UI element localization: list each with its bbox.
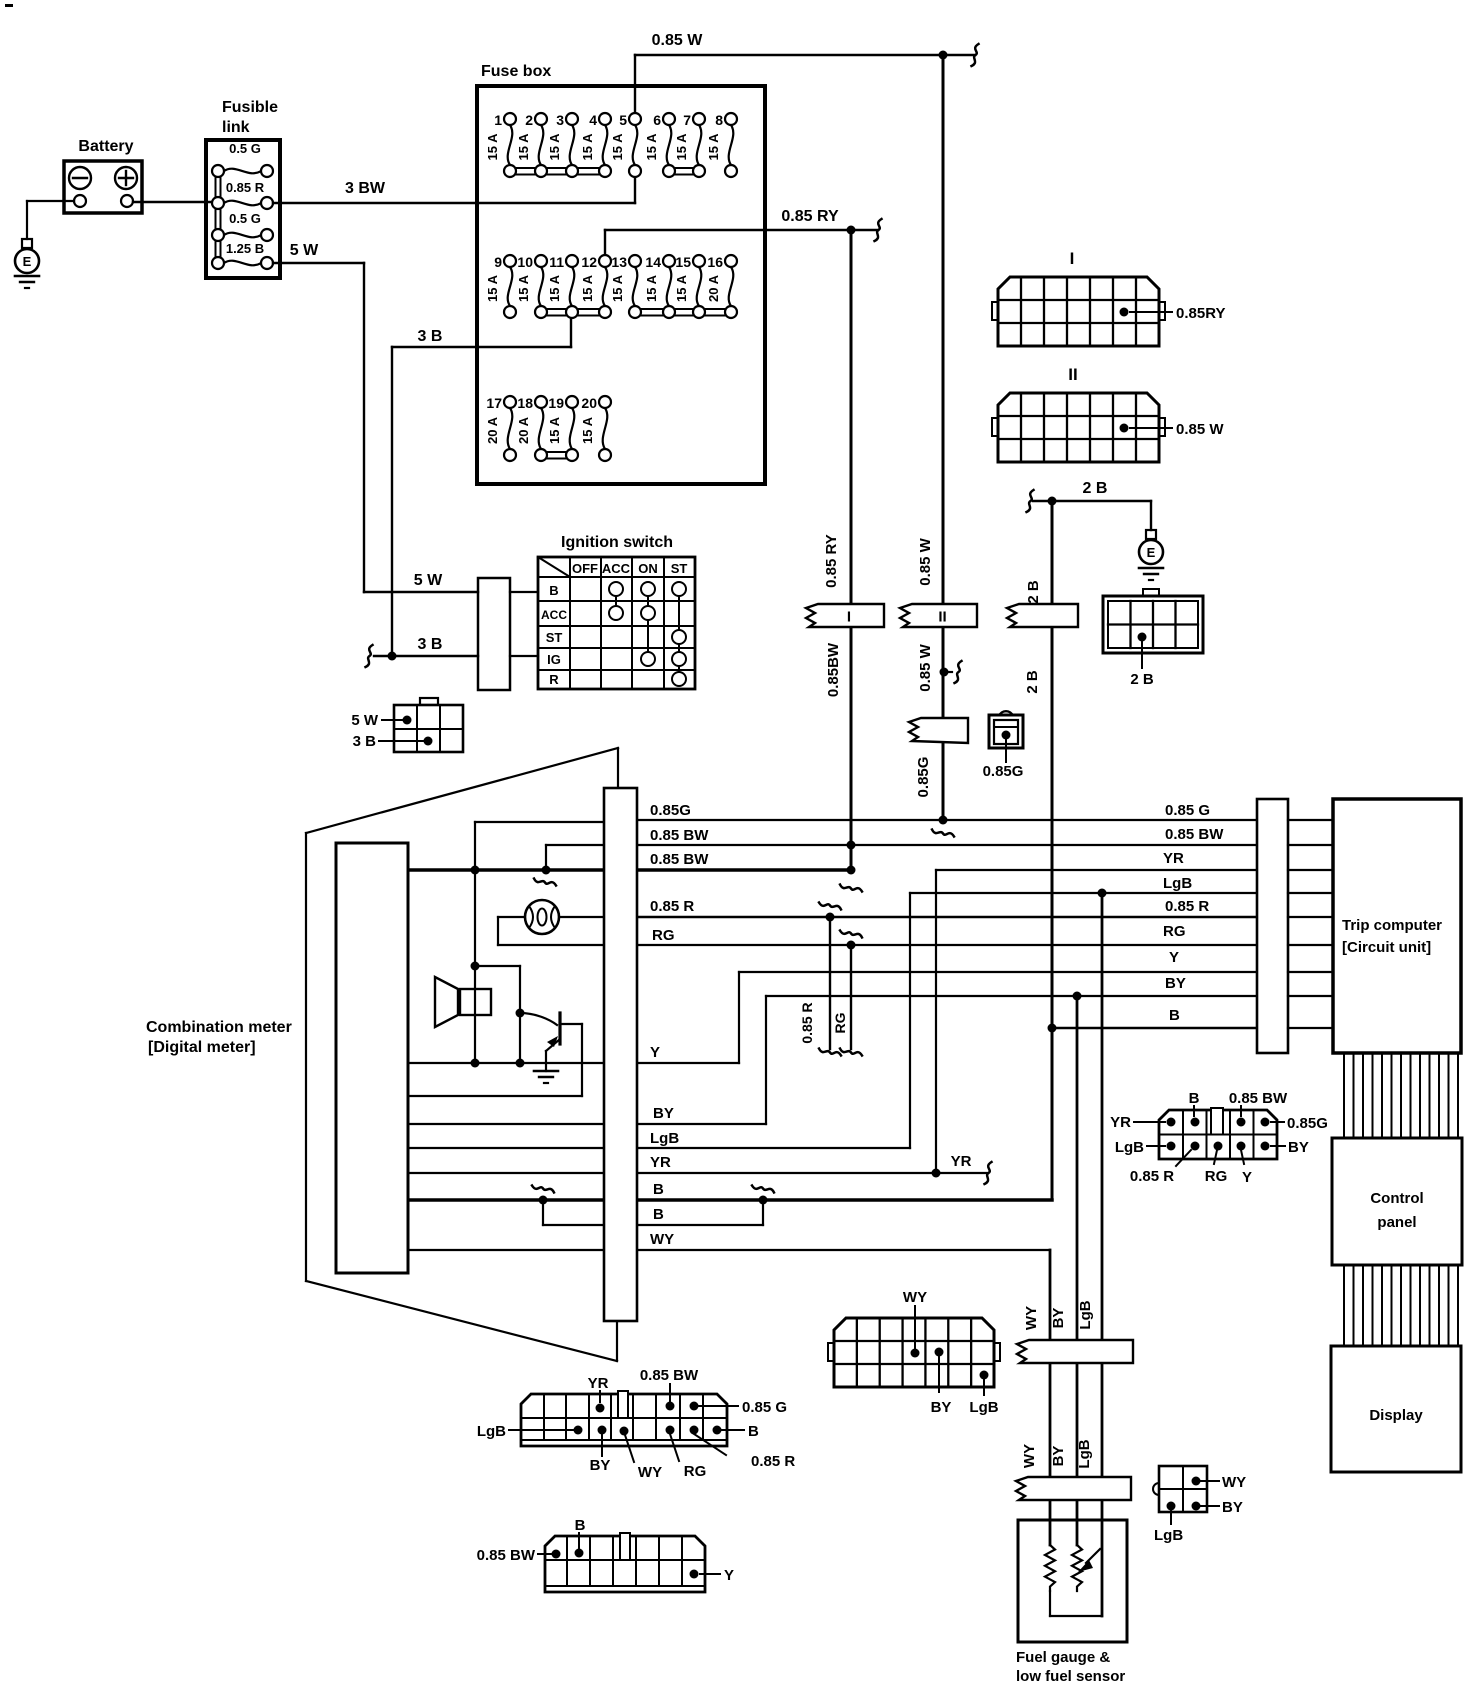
svg-text:0.85G: 0.85G: [650, 802, 691, 819]
ignition switch table: [538, 557, 695, 689]
svg-text:B: B: [549, 583, 558, 598]
break above B node left: [532, 1186, 554, 1193]
svg-text:RG: RG: [832, 1012, 848, 1033]
node 2 B junction: [1048, 497, 1057, 506]
ribbon control panel to display: [1344, 1265, 1458, 1346]
node RG branch: [847, 941, 856, 950]
svg-text:Y: Y: [1242, 1169, 1252, 1186]
resistor (low fuel sensor): [1072, 1545, 1082, 1591]
svg-text:0.85 R: 0.85 R: [1165, 898, 1209, 915]
wire 3 BW fusible link to fuse box: [273, 202, 477, 204]
trip computer (circuit unit): [1333, 799, 1461, 1053]
connector (5W / 3B): [394, 698, 463, 752]
svg-text:ACC: ACC: [541, 608, 567, 622]
wire 3 B from fuse bus: [570, 312, 572, 347]
svg-text:Display: Display: [1369, 1407, 1423, 1424]
svg-text:ACC: ACC: [602, 561, 631, 576]
svg-text:WY: WY: [650, 1231, 674, 1248]
svg-text:IG: IG: [547, 652, 561, 667]
node YR: [932, 1169, 941, 1178]
svg-text:B: B: [653, 1206, 664, 1223]
svg-text:7: 7: [683, 112, 691, 128]
fuse bus row2 fuses 10-12: [541, 308, 605, 310]
svg-text:2 B: 2 B: [1083, 480, 1108, 497]
svg-text:RG: RG: [684, 1463, 707, 1480]
node 0.85 BW row: [847, 841, 856, 850]
svg-text:0.85 BW: 0.85 BW: [640, 1367, 699, 1384]
page speck: [5, 4, 13, 7]
fuse 8 (15 A): [706, 112, 733, 165]
svg-text:15: 15: [675, 254, 691, 270]
svg-text:0.5 G: 0.5 G: [229, 141, 261, 156]
svg-text:OFF: OFF: [572, 561, 598, 576]
svg-text:B: B: [653, 1181, 664, 1198]
node BY: [1073, 992, 1082, 1001]
wire 0.85 W top run: [635, 54, 943, 56]
wire battery negative to ground: [27, 200, 74, 202]
wire 0.85 RY / 0.85 BW vertical: [850, 230, 853, 870]
wire YR meter to riser: [638, 1172, 936, 1174]
wire RG branch down: [840, 931, 862, 938]
speaker SP: [435, 977, 491, 1027]
svg-text:0.85 R: 0.85 R: [1130, 1168, 1174, 1185]
svg-text:20 A: 20 A: [516, 416, 531, 444]
svg-text:15 A: 15 A: [580, 133, 595, 161]
svg-text:0.85 BW: 0.85 BW: [1165, 826, 1224, 843]
svg-text:0.85 BW: 0.85 BW: [477, 1547, 536, 1564]
svg-text:3: 3: [556, 112, 564, 128]
wire 0.85 G row: [638, 819, 1257, 821]
svg-text:LgB: LgB: [650, 1130, 679, 1147]
svg-text:WY: WY: [638, 1464, 662, 1481]
svg-text:RG: RG: [1163, 923, 1186, 940]
wire 0.85 BW row: [638, 844, 1257, 846]
svg-text:0.85 BW: 0.85 BW: [650, 851, 709, 868]
fuse 16 (20 A): [706, 254, 733, 306]
svg-text:0.85 G: 0.85 G: [1165, 802, 1210, 819]
svg-text:8: 8: [715, 112, 723, 128]
fuse 9 (15 A): [485, 254, 512, 306]
svg-text:1.25 B: 1.25 B: [226, 241, 264, 256]
wire 5 W from fusible link: [273, 262, 364, 264]
svg-text:15 A: 15 A: [516, 133, 531, 161]
connector (single pin, 0.85 G): [989, 711, 1023, 748]
svg-text:panel: panel: [1377, 1214, 1416, 1231]
wire 5 W to ignition switch: [364, 591, 478, 593]
svg-text:3 B: 3 B: [418, 328, 443, 345]
svg-text:Y: Y: [724, 1567, 734, 1584]
svg-text:LgB: LgB: [1115, 1139, 1144, 1156]
node B / 2B: [1048, 1024, 1057, 1033]
svg-text:LgB: LgB: [1163, 875, 1192, 892]
svg-text:20 A: 20 A: [485, 416, 500, 444]
pin BY: [1192, 1502, 1201, 1511]
svg-text:low fuel sensor: low fuel sensor: [1016, 1668, 1125, 1685]
wire WY vertical: [1049, 1250, 1052, 1545]
fuse 7 (15 A): [674, 112, 701, 165]
svg-text:6: 6: [653, 112, 661, 128]
svg-text:5 W: 5 W: [414, 572, 443, 589]
wiper arrow (fuel sender): [1086, 1549, 1100, 1563]
fuse 6 (15 A): [644, 112, 671, 165]
svg-text:15 A: 15 A: [706, 133, 721, 161]
wire 3 B to ignition switch: [374, 655, 478, 657]
svg-text:0.85 W: 0.85 W: [1176, 421, 1224, 438]
svg-text:LgB: LgB: [477, 1423, 506, 1440]
wire 0.85 G meter: [475, 821, 604, 823]
svg-text:3 B: 3 B: [353, 733, 377, 750]
svg-text:15 A: 15 A: [547, 133, 562, 161]
svg-text:1: 1: [494, 112, 502, 128]
svg-text:BY: BY: [1288, 1139, 1309, 1156]
fuse 19 (15 A): [547, 395, 574, 449]
svg-text:WY: WY: [903, 1289, 927, 1306]
svg-text:14: 14: [645, 254, 661, 270]
svg-text:ON: ON: [638, 561, 658, 576]
wire 2 B vertical: [1051, 501, 1054, 1200]
wire Y row right: [638, 1062, 739, 1064]
inline connector II on 0.85W wire: [900, 604, 977, 627]
break below 0.85BW junction: [840, 885, 862, 892]
trip computer connector: [1257, 799, 1288, 1053]
fuse 14 (15 A): [644, 254, 671, 306]
battery: [64, 161, 142, 213]
meter connector block: [604, 788, 637, 1321]
svg-text:Ignition switch: Ignition switch: [561, 534, 673, 551]
svg-text:15 A: 15 A: [516, 274, 531, 302]
fuse bus row1 fuses 1-4: [510, 167, 605, 169]
fuse bus row1 fuses 6-7: [669, 167, 699, 169]
ground E (2B): [1139, 530, 1163, 580]
svg-text:0.85 RY: 0.85 RY: [823, 534, 840, 588]
svg-text:LgB: LgB: [1154, 1527, 1183, 1544]
node 0.85 R branch: [826, 913, 835, 922]
svg-text:0.85G: 0.85G: [915, 757, 932, 798]
fuse 11 (15 A): [547, 254, 574, 306]
svg-text:19: 19: [548, 395, 564, 411]
pin 0.85 W in connector II: [1120, 424, 1129, 433]
connector II: [992, 393, 1165, 462]
node 0.85 RY junction: [847, 226, 856, 235]
node 0.85 W junction: [939, 51, 948, 60]
wire battery positive to fusible link: [133, 201, 212, 203]
display: [1331, 1346, 1461, 1472]
wire B heavy row right: [638, 1198, 1052, 1202]
svg-text:4: 4: [589, 112, 597, 128]
wire B meter jumper left: [543, 1224, 604, 1226]
svg-text:15 A: 15 A: [610, 133, 625, 161]
transistor Q1: [520, 1013, 582, 1096]
svg-text:LgB: LgB: [1077, 1300, 1094, 1329]
fuel gauge box: [1018, 1520, 1127, 1642]
node 0.85 W to 0.85 G row: [939, 816, 948, 825]
pin WY: [911, 1349, 920, 1358]
svg-text:YR: YR: [951, 1153, 972, 1170]
svg-text:15 A: 15 A: [644, 133, 659, 161]
wire Y meter: [409, 1062, 604, 1064]
svg-text:0.85RY: 0.85RY: [1176, 305, 1225, 322]
svg-text:0.85BW: 0.85BW: [825, 642, 842, 697]
inline connector on 0.85W/0.85G wire: [909, 718, 968, 743]
svg-text:13: 13: [611, 254, 627, 270]
svg-text:I: I: [847, 609, 851, 626]
svg-text:3 BW: 3 BW: [345, 180, 386, 197]
svg-text:15 A: 15 A: [610, 274, 625, 302]
fuse 3 (15 A): [547, 112, 574, 165]
wire transistor collector to meter: [409, 1095, 582, 1097]
svg-text:LgB: LgB: [969, 1399, 998, 1416]
fuse bus row2 fuses 13-16: [635, 308, 731, 310]
wire BY vertical: [1076, 996, 1079, 1545]
wire 0.85 BW meter heavy: [409, 868, 604, 872]
wire LgB vertical: [1101, 893, 1104, 1616]
svg-text:Trip computer: Trip computer: [1342, 917, 1442, 934]
pin 0.85 RY in connector I: [1120, 308, 1129, 317]
fuse 2 (15 A): [516, 112, 543, 165]
break below 0.85BW node: [534, 879, 556, 886]
svg-text:0.5 G: 0.5 G: [229, 211, 261, 226]
wire YR meter: [409, 1172, 604, 1174]
wire 0.85 RY top run: [605, 229, 851, 231]
connector (4-pin WY/BY/LgB): [1153, 1466, 1207, 1512]
fusible link internal bus: [215, 171, 217, 263]
node 0.85 BW heavy row: [847, 866, 856, 875]
pin BY: [935, 1348, 944, 1357]
inline connector on 2B wire: [1007, 604, 1078, 627]
connector (WY/BY/LgB): [828, 1318, 1000, 1387]
svg-text:ST: ST: [671, 561, 688, 576]
svg-text:15 A: 15 A: [580, 274, 595, 302]
wire LgB meter: [409, 1147, 604, 1149]
svg-text:15 A: 15 A: [644, 274, 659, 302]
ribbon trip computer to control panel: [1344, 1053, 1458, 1138]
wire RG meter: [498, 944, 604, 946]
svg-text:10: 10: [517, 254, 533, 270]
svg-text:Fuel gauge &: Fuel gauge &: [1016, 1649, 1110, 1666]
ignition switch contacts: [615, 589, 617, 613]
pin LgB: [980, 1371, 989, 1380]
fuse 12 (15 A): [580, 254, 607, 306]
inline connector I on 0.85RY/BW wire: [806, 604, 884, 627]
svg-text:II: II: [1068, 365, 1077, 384]
fuse 4 (15 A): [580, 112, 607, 165]
wire WY meter: [409, 1249, 604, 1251]
fusible link box: [206, 140, 280, 278]
svg-text:B: B: [1169, 1007, 1180, 1024]
lamp L1: [498, 900, 604, 945]
svg-text:WY: WY: [1023, 1306, 1040, 1330]
pin LgB: [1167, 1502, 1176, 1511]
svg-text:0.85 R: 0.85 R: [799, 1002, 815, 1043]
svg-text:15 A: 15 A: [547, 274, 562, 302]
svg-text:BY: BY: [653, 1105, 674, 1122]
pin 5 W: [403, 716, 412, 725]
svg-text:15 A: 15 A: [580, 416, 595, 444]
wire 3 BW inside fuse box to fuse 5: [477, 202, 635, 204]
fuse 20 (15 A): [580, 395, 607, 449]
fuse 17 (20 A): [485, 395, 512, 449]
svg-text:2 B: 2 B: [1025, 580, 1042, 604]
wire 0.85 W vertical: [942, 55, 945, 820]
svg-text:20 A: 20 A: [706, 274, 721, 302]
svg-text:RG: RG: [652, 927, 675, 944]
wire LgB meter to riser: [638, 1147, 910, 1149]
svg-text:[Circuit unit]: [Circuit unit]: [1342, 939, 1431, 956]
wire LgB row right: [910, 892, 1257, 894]
svg-text:15 A: 15 A: [485, 274, 500, 302]
wire 0.85 BW heavy row: [638, 868, 851, 872]
svg-text:link: link: [222, 119, 250, 136]
wire YR row right: [936, 869, 1257, 871]
svg-text:0.85 RY: 0.85 RY: [781, 208, 839, 225]
svg-text:Fusible: Fusible: [222, 99, 278, 116]
svg-text:0.85 W: 0.85 W: [917, 643, 934, 691]
svg-text:Battery: Battery: [78, 138, 133, 155]
connector (10-pin trip computer): [1159, 1108, 1277, 1159]
svg-text:RG: RG: [1205, 1168, 1228, 1185]
svg-text:BY: BY: [1050, 1308, 1067, 1329]
svg-text:YR: YR: [1110, 1114, 1131, 1131]
svg-text:BY: BY: [1050, 1446, 1067, 1467]
wire fuel gauge return loop: [1049, 1591, 1051, 1616]
svg-text:YR: YR: [588, 1375, 609, 1392]
wire B row to trip connector: [1052, 1027, 1257, 1029]
fuse box: [477, 86, 765, 484]
svg-text:0.85 W: 0.85 W: [917, 537, 934, 585]
connector (meter harness A): [521, 1391, 727, 1446]
resistor (fuel gauge): [1045, 1545, 1055, 1591]
connector (meter harness B): [545, 1533, 705, 1592]
svg-text:B: B: [1189, 1090, 1200, 1107]
svg-text:[Digital meter]: [Digital meter]: [148, 1039, 256, 1056]
fuse 5 (15 A): [610, 112, 637, 165]
fuse 1 (15 A): [485, 112, 512, 165]
svg-text:BY: BY: [1165, 975, 1186, 992]
wire WY row: [638, 1249, 1050, 1251]
svg-text:15 A: 15 A: [674, 133, 689, 161]
pin 0.85 G: [1002, 731, 1011, 740]
svg-text:0.85 R: 0.85 R: [226, 180, 265, 195]
break 2 B left end: [1027, 490, 1034, 512]
svg-text:0.85 R: 0.85 R: [751, 1453, 795, 1470]
svg-text:17: 17: [486, 395, 502, 411]
node 3 B junction: [388, 652, 397, 661]
svg-text:0.85 BW: 0.85 BW: [1229, 1090, 1288, 1107]
ground (transistor emitter): [534, 1071, 558, 1083]
svg-text:2 B: 2 B: [1130, 671, 1154, 688]
svg-text:BY: BY: [1222, 1499, 1243, 1516]
svg-text:R: R: [549, 672, 559, 687]
svg-text:0.85G: 0.85G: [1287, 1115, 1328, 1132]
wire 0.85 BW meter: [546, 844, 604, 846]
svg-text:20: 20: [581, 395, 597, 411]
svg-text:Y: Y: [1169, 949, 1179, 966]
break 0.85 RY end: [875, 219, 882, 241]
break 3 B left end: [366, 645, 373, 667]
svg-text:3 B: 3 B: [418, 636, 443, 653]
svg-text:Y: Y: [650, 1044, 660, 1061]
pin 3 B: [424, 737, 433, 746]
wire BY meter: [409, 1123, 604, 1125]
wire to transistor base: [475, 965, 520, 967]
svg-text:YR: YR: [650, 1154, 671, 1171]
svg-text:BY: BY: [590, 1457, 611, 1474]
svg-text:LgB: LgB: [1076, 1439, 1093, 1468]
svg-text:2: 2: [525, 112, 533, 128]
wire 0.85 RY from fuse 12: [604, 230, 606, 261]
svg-text:WY: WY: [1222, 1474, 1246, 1491]
node 0.85 W junction with break: [944, 671, 952, 673]
svg-text:16: 16: [707, 254, 723, 270]
svg-text:Fuse box: Fuse box: [481, 63, 551, 80]
svg-text:II: II: [938, 609, 946, 626]
svg-text:11: 11: [549, 254, 564, 270]
ground E (battery): [15, 239, 39, 288]
svg-text:18: 18: [517, 395, 533, 411]
combination meter outline: [306, 748, 618, 1361]
wire 0.85 W from fuse 5: [634, 55, 636, 119]
svg-text:0.85G: 0.85G: [983, 763, 1024, 780]
inline connector (fuel harness upper): [1017, 1340, 1133, 1363]
control panel: [1332, 1138, 1462, 1265]
svg-text:B: B: [748, 1423, 759, 1440]
svg-text:Control: Control: [1370, 1190, 1423, 1207]
connector (8-pin, 2B): [1103, 589, 1203, 653]
svg-text:I: I: [1070, 249, 1075, 268]
svg-text:0.85 BW: 0.85 BW: [650, 827, 709, 844]
svg-text:WY: WY: [1021, 1444, 1038, 1468]
meter internal block: [336, 843, 408, 1273]
fuse 10 (15 A): [516, 254, 543, 306]
svg-text:15 A: 15 A: [674, 274, 689, 302]
wire RG row: [638, 944, 1257, 946]
wire B jumper right: [638, 1224, 763, 1226]
fuse bus row3 fuses 18-19: [541, 451, 572, 453]
svg-text:15 A: 15 A: [485, 133, 500, 161]
fuse 15 (15 A): [674, 254, 701, 306]
wire 0.85 R row: [638, 916, 1257, 918]
wire BY row right: [638, 1123, 766, 1125]
svg-text:YR: YR: [1163, 850, 1184, 867]
wire 0.85 R branch down: [819, 903, 841, 910]
node B jumper right: [759, 1196, 768, 1205]
svg-text:5: 5: [619, 112, 627, 128]
inline connector (fuel harness lower): [1016, 1477, 1131, 1500]
node LgB: [1098, 889, 1107, 898]
svg-text:BY: BY: [931, 1399, 952, 1416]
fuse 13 (15 A): [610, 254, 637, 306]
svg-text:5 W: 5 W: [351, 712, 379, 729]
svg-text:B: B: [575, 1517, 586, 1534]
connector I: [992, 277, 1165, 346]
svg-text:0.85 G: 0.85 G: [742, 1399, 787, 1416]
svg-text:0.85 W: 0.85 W: [652, 32, 704, 49]
pin 2 B in 8-pin connector: [1138, 633, 1147, 642]
svg-text:ST: ST: [546, 630, 563, 645]
break 0.85 W end: [972, 44, 979, 66]
svg-text:12: 12: [581, 254, 597, 270]
svg-text:Combination meter: Combination meter: [146, 1019, 292, 1036]
fuse 18 (20 A): [516, 395, 543, 449]
ignition switch connector: [478, 578, 510, 690]
svg-text:15 A: 15 A: [547, 416, 562, 444]
svg-text:2 B: 2 B: [1024, 670, 1041, 694]
svg-text:E: E: [1147, 545, 1156, 560]
pin WY: [1192, 1477, 1201, 1486]
wire B meter heavy: [409, 1198, 604, 1202]
svg-text:0.85 R: 0.85 R: [650, 898, 694, 915]
svg-text:5 W: 5 W: [290, 242, 319, 259]
